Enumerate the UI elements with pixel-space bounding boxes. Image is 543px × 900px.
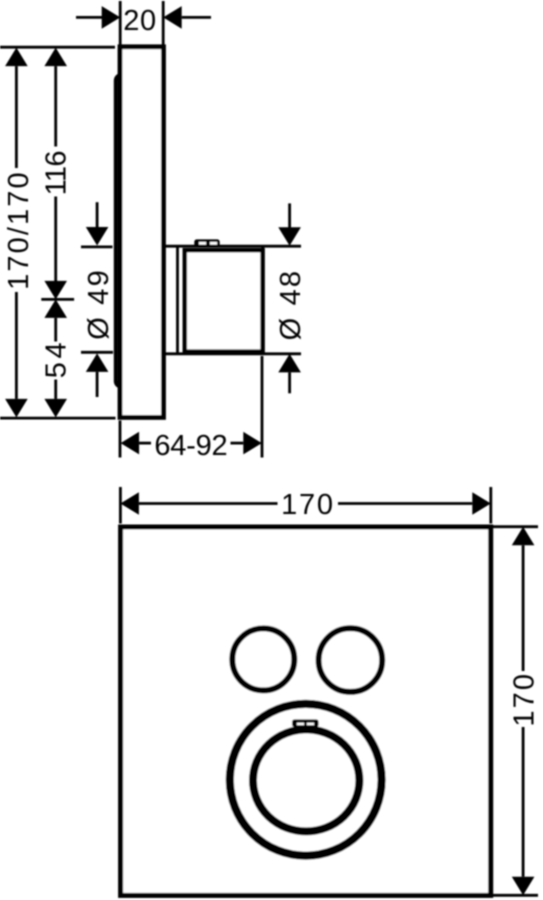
dim 170 top: left arrow	[120, 492, 138, 515]
svg-text:64-92: 64-92	[154, 430, 227, 462]
dim Ø49: upper line	[96, 202, 99, 227]
knob outer circle (front view)	[230, 704, 382, 856]
svg-text:20: 20	[123, 5, 156, 37]
dim 20: right tail line	[182, 16, 211, 19]
tab white dash 2 (front)	[307, 723, 314, 726]
flange (concealed body behind wall plate)	[116, 75, 146, 387]
dim 64-92: left extension line	[119, 421, 122, 458]
dim 20: right extension line	[162, 1, 165, 45]
svg-text:Ø 48: Ø 48	[275, 269, 307, 341]
knob body (side view)	[185, 250, 263, 351]
dim Ø48: lower line	[288, 372, 291, 393]
svg-text:Ø 49: Ø 49	[83, 268, 115, 340]
dim 170 right: text	[509, 672, 541, 727]
dim 170/170: lower arrow	[5, 399, 28, 418]
front plate square (front view)	[121, 527, 491, 895]
svg-text:170/170: 170/170	[3, 170, 35, 290]
sleeve silhouette top line	[163, 245, 301, 248]
dim 170 right: bottom extension line	[493, 894, 538, 897]
dim 20: left extension line	[119, 1, 122, 45]
safety-stop tab (front view)	[292, 719, 319, 727]
dim 64-92: line left segment	[139, 442, 151, 445]
knob inner circle (front view)	[253, 729, 359, 831]
svg-text:170: 170	[509, 672, 541, 727]
bottom extension line (plate bottom, left)	[0, 417, 116, 420]
dim 54: line upper segment	[54, 318, 57, 342]
dim 116: lower arrow (down, tip at knob centerline)	[44, 281, 67, 300]
select button right (front view)	[319, 628, 383, 692]
dim Ø49: lower arrow (up)	[86, 353, 109, 372]
dim Ø49: lower line	[96, 372, 99, 397]
tab white dash 1 (side)	[199, 242, 206, 245]
dim 170 top: line left segment	[139, 502, 278, 505]
dim 54: text	[41, 339, 73, 378]
dim 170 right: line upper segment	[522, 545, 525, 671]
dim 170 right: bottom arrow (down)	[512, 877, 535, 896]
dim 116: line upper segment	[54, 66, 57, 146]
tab white dash 1 (front)	[297, 723, 304, 726]
dim Ø48: text	[275, 269, 307, 341]
dim 116: line lower segment	[54, 197, 57, 282]
dim 64-92: right extension line	[261, 356, 264, 458]
knob right edge full height	[261, 246, 264, 354]
dim 170 top: right extension line	[489, 487, 492, 524]
tab white dash 2 (side)	[210, 242, 217, 245]
dim 116: text	[41, 151, 73, 195]
wall plate (side view)	[120, 47, 164, 418]
dim 170 top: right arrow	[472, 492, 491, 515]
dim Ø49: upper arrow (down)	[86, 227, 109, 246]
dim Ø48: lower arrow (up)	[278, 354, 301, 373]
top extension line (plate top, left)	[0, 46, 115, 49]
dim 20: right arrow	[163, 6, 182, 29]
dim 54: line lower segment	[54, 380, 57, 399]
dim 170/170: line lower segment	[15, 292, 18, 399]
dim Ø48: upper line	[288, 203, 291, 228]
dim 20: left tail line	[76, 16, 102, 19]
dim 170/170: text	[3, 170, 35, 290]
dim 170/170: line upper segment	[15, 66, 18, 168]
svg-text:170: 170	[281, 489, 335, 521]
select button left (front view)	[232, 628, 294, 690]
dim Ø49: lower stub	[81, 351, 113, 354]
knob centerline stub	[41, 298, 74, 301]
dim Ø49: upper stub	[81, 245, 113, 248]
dim 170 right: line lower segment	[522, 727, 525, 877]
svg-text:54: 54	[41, 339, 73, 378]
dim 64-92: left arrow	[121, 432, 140, 455]
safety-stop tab (side view)	[194, 239, 219, 247]
dim 170 right: top extension line	[493, 525, 538, 528]
dim 170 right: top arrow (up)	[512, 527, 535, 546]
dim 54: lower arrow	[44, 399, 67, 418]
dim Ø48: upper arrow (down)	[278, 227, 301, 246]
sleeve silhouette bottom line	[163, 352, 301, 355]
dim Ø49: text	[83, 268, 115, 340]
svg-text:116: 116	[41, 151, 73, 195]
dim 64-92: line right segment	[231, 442, 244, 445]
dim 64-92: right arrow	[243, 432, 261, 455]
sleeve right edge	[176, 246, 179, 354]
dim 170/170: upper arrow	[5, 48, 28, 67]
dim 170 top: left extension line	[119, 487, 122, 524]
dim 170 top: line right segment	[338, 502, 472, 505]
dim 20: left arrow	[102, 6, 121, 29]
dim 116: upper arrow	[44, 48, 67, 67]
dim 54: upper arrow (up, tip at knob centerline)	[44, 299, 67, 318]
